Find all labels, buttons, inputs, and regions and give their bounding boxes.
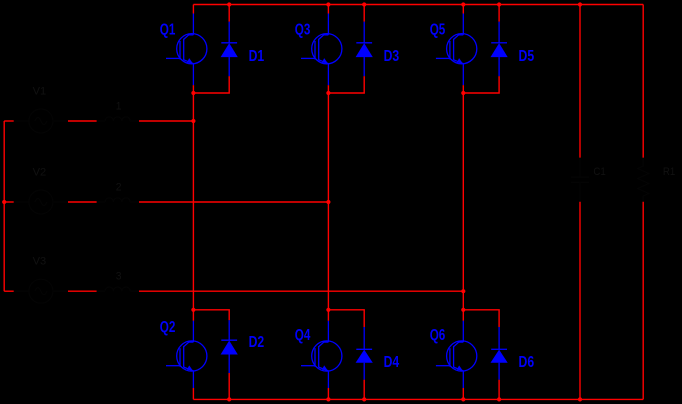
node: leg 3 lower junction (461, 308, 465, 312)
node: D4 anode on bottom rail (362, 397, 366, 401)
wire: leg 2 midsection (327, 93, 329, 310)
wire: phase 2 stub from neutral (4, 201, 14, 203)
svg-text:Q5: Q5 (430, 22, 446, 39)
wire: phase 1 between source and inductor (68, 120, 97, 122)
inductor L2 (black symbol) (97, 198, 140, 202)
node: C1 on bottom rail (578, 397, 582, 401)
svg-text:3: 3 (116, 271, 122, 283)
node: D1 cathode on top rail (227, 2, 231, 6)
wire: leg 1 midsection (192, 93, 194, 310)
wire: Q5 collector stub (462, 5, 464, 14)
svg-text:2: 2 (116, 181, 122, 193)
transistor Q5 (IGBT) (436, 14, 477, 86)
node: D2 anode on bottom rail (227, 397, 231, 401)
svg-text:V3: V3 (33, 256, 47, 268)
svg-text:D5: D5 (519, 48, 535, 65)
wire: C1 top lead (579, 5, 581, 158)
wire: Q2 collector stub (192, 310, 194, 321)
node: Q5 collector on top rail (461, 2, 465, 6)
wire: Q5 emitter to junction (462, 85, 464, 93)
node: Q1 emitter junction (191, 91, 195, 95)
svg-text:V2: V2 (33, 166, 47, 178)
svg-text:1: 1 (116, 100, 122, 112)
node: phase 1 connection (191, 119, 195, 123)
node: Q6 emitter on bottom rail (461, 397, 465, 401)
inductor L3 (black symbol) (97, 287, 140, 291)
svg-text:Q1: Q1 (160, 22, 176, 39)
wire: Q1 collector stub (192, 5, 194, 14)
wire: Q6 collector stub (462, 310, 464, 321)
svg-text:D3: D3 (384, 48, 400, 65)
wire: lower junction to D4 cathode (328, 310, 364, 327)
diode D3 (356, 22, 372, 76)
svg-text:D4: D4 (384, 354, 400, 371)
wire: D3 cathode stub (363, 5, 365, 22)
diode D1 (221, 22, 237, 76)
wire: leg 3 midsection (462, 93, 464, 310)
node: D5 cathode on top rail (497, 2, 501, 6)
wire: emitter junction to D1 anode (193, 76, 229, 93)
wire: phase 3 stub from neutral (4, 290, 14, 292)
inductor L1 (black symbol) (97, 117, 140, 121)
voltage source V2 (black symbol) (14, 190, 68, 214)
node: D6 anode on bottom rail (497, 397, 501, 401)
wire: D5 cathode stub (498, 5, 500, 22)
wire: D4 anode to bottom rail (363, 380, 365, 400)
wire: D6 anode to bottom rail (498, 380, 500, 400)
svg-text:Q4: Q4 (295, 327, 311, 344)
svg-text:R1: R1 (663, 166, 675, 178)
node: Q3 collector on top rail (326, 2, 330, 6)
node: Q4 emitter on bottom rail (326, 397, 330, 401)
wire: R1 bottom lead (642, 202, 644, 400)
svg-text:Q3: Q3 (295, 22, 311, 39)
wire: phase 3 between source and inductor (68, 290, 97, 292)
capacitor C1 (black symbol) (571, 158, 589, 202)
svg-text:Q6: Q6 (430, 327, 446, 344)
wire: D2 anode to bottom rail (228, 373, 230, 399)
node: Q3 emitter junction (326, 91, 330, 95)
wire: phase 2 between source and inductor (68, 201, 97, 203)
svg-text:D6: D6 (519, 354, 535, 371)
wire: bottom DC rail (193, 398, 643, 400)
wire: top DC rail (193, 4, 643, 6)
wire: Q3 emitter to junction (327, 85, 329, 93)
diode D4 (356, 327, 372, 380)
diode D5 (491, 22, 507, 76)
node: C1 on top rail (578, 2, 582, 6)
wire: Q4 collector stub (327, 310, 329, 321)
voltage source V1 (black symbol) (14, 109, 68, 133)
node: leg 1 lower junction (191, 308, 195, 312)
wire: D1 cathode stub (228, 5, 230, 22)
node: phase 3 connection (461, 289, 465, 293)
transistor Q2 (IGBT) (166, 321, 207, 388)
wire: C1 bottom lead (579, 202, 581, 400)
node: neutral junction (2, 200, 6, 204)
wire: emitter junction to D3 anode (328, 76, 364, 93)
svg-text:Q2: Q2 (160, 319, 176, 336)
node: D3 cathode on top rail (362, 2, 366, 6)
wire: lower junction to D2 cathode (193, 310, 229, 320)
transistor Q4 (IGBT) (301, 321, 342, 388)
transistor Q6 (IGBT) (436, 321, 477, 388)
node: Q5 emitter junction (461, 91, 465, 95)
node: phase 2 connection (326, 200, 330, 204)
diode D2 (221, 320, 237, 373)
svg-text:D2: D2 (249, 334, 265, 351)
node: leg 2 lower junction (326, 308, 330, 312)
wire: source neutral rail (left) (3, 121, 5, 291)
svg-text:C1: C1 (593, 166, 605, 178)
voltage source V3 (black symbol) (14, 279, 68, 303)
wire: lower junction to D6 cathode (463, 310, 499, 327)
wire: phase 1 to bridge leg (139, 120, 193, 122)
svg-text:V1: V1 (33, 85, 47, 97)
wire: phase 1 stub from neutral (4, 120, 14, 122)
wire: Q6 emitter to bottom rail (462, 388, 464, 399)
wire: phase 2 to bridge leg (139, 201, 328, 203)
wire: Q2 emitter to bottom rail (192, 388, 194, 399)
resistor R1 (black symbol) (638, 158, 649, 202)
wire: emitter junction to D5 anode (463, 76, 499, 93)
wire: R1 top lead (642, 5, 644, 158)
transistor Q1 (IGBT) (166, 14, 207, 86)
wire: Q4 emitter to bottom rail (327, 388, 329, 399)
diode D6 (491, 327, 507, 380)
wire: phase 3 to bridge leg (139, 290, 463, 292)
svg-text:D1: D1 (249, 48, 265, 65)
wire: Q3 collector stub (327, 5, 329, 14)
wire: Q1 emitter to junction (192, 85, 194, 93)
transistor Q3 (IGBT) (301, 14, 342, 86)
